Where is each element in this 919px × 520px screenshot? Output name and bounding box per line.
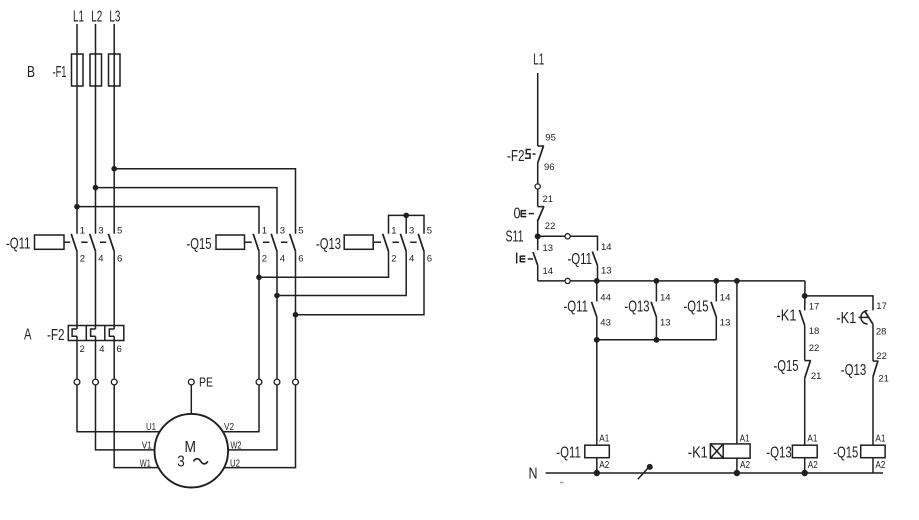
svg-text:17: 17 <box>809 301 820 312</box>
wire star-point bridge over Q13 <box>389 215 425 233</box>
stray mark <box>560 482 564 484</box>
svg-text:I: I <box>515 250 519 267</box>
svg-text:-F2: -F2 <box>507 148 525 165</box>
svg-text:17: 17 <box>876 301 887 312</box>
motor M 3~ <box>140 414 242 488</box>
junction Q15/Q13 output U2 <box>293 312 299 318</box>
wire feed L1 to Q15 pole 1 <box>77 207 259 234</box>
svg-text:A2: A2 <box>599 460 609 471</box>
wire feed L3 to Q15 pole 5 <box>114 169 295 234</box>
junction star-point bridge centre <box>403 213 409 219</box>
wire phase L3 vertical <box>113 24 115 234</box>
svg-text:4: 4 <box>98 254 103 265</box>
contact -Q15 aux NO (13-14) <box>684 281 731 340</box>
svg-text:L1: L1 <box>533 52 544 69</box>
svg-text:4: 4 <box>99 344 104 355</box>
contact -K1 timed NC delayed (17-28) <box>836 301 887 361</box>
svg-text:2: 2 <box>80 344 85 355</box>
svg-text:-Q13: -Q13 <box>625 299 650 316</box>
junction top bus / K1 coil rung <box>734 278 740 284</box>
label B (ladder row marker) <box>27 64 35 81</box>
coil -Q11 contactor coil A1-A2 <box>556 434 609 473</box>
svg-text:-Q11: -Q11 <box>568 251 593 268</box>
svg-text:3: 3 <box>409 225 414 236</box>
contactor -Q11 main contacts (line contactor) <box>6 225 122 264</box>
svg-text:1: 1 <box>391 225 396 236</box>
junction N / K1 coil <box>734 470 740 476</box>
svg-text:-Q11: -Q11 <box>556 444 581 461</box>
svg-text:W1: W1 <box>140 459 151 470</box>
svg-text:5: 5 <box>427 225 432 236</box>
wire Q11 outputs down through overload to motor terminals <box>77 251 159 467</box>
wire start button to top bus <box>537 265 539 281</box>
svg-text:M: M <box>185 439 197 456</box>
coil -Q13 star contactor coil A1-A2 <box>766 434 818 473</box>
svg-text:44: 44 <box>600 292 611 303</box>
svg-text:6: 6 <box>117 344 122 355</box>
svg-text:-Q11: -Q11 <box>564 299 589 316</box>
wire stop to S11 node <box>537 222 539 251</box>
connection marker on N rail <box>638 464 653 479</box>
net label L1 power feed <box>73 9 84 26</box>
junction L3 to Q15 feed <box>111 166 117 172</box>
svg-text:A2: A2 <box>808 460 818 471</box>
svg-text:18: 18 <box>809 326 820 337</box>
wire control main from L1 to F2 contact <box>537 73 539 146</box>
svg-text:-Q15: -Q15 <box>833 444 858 461</box>
wire Q13 output pole6 to node U2 <box>296 251 425 314</box>
svg-text:A1: A1 <box>807 434 817 445</box>
svg-text:43: 43 <box>600 317 611 328</box>
terminal circle on top bus <box>565 278 570 283</box>
coil -Q15 delta contactor coil A1-A2 <box>833 434 885 473</box>
svg-text:21: 21 <box>878 374 889 385</box>
wire Q13 output pole2 to node V2 <box>259 251 389 277</box>
svg-text:6: 6 <box>298 254 303 265</box>
svg-text:21: 21 <box>543 194 554 205</box>
terminal PE with label <box>188 376 213 390</box>
svg-text:4: 4 <box>409 254 414 265</box>
svg-text:14: 14 <box>543 266 554 277</box>
fuse -F1 pole 3 <box>109 54 121 86</box>
wire PE to motor <box>190 385 192 414</box>
wire terminal to stop button <box>537 189 539 207</box>
svg-text:PE: PE <box>199 376 213 390</box>
fuse -F1 pole 2 <box>90 54 102 86</box>
net label N <box>529 465 538 482</box>
svg-text:3: 3 <box>98 225 103 236</box>
svg-text:L1: L1 <box>73 9 84 26</box>
wire N bus rail <box>546 472 884 474</box>
svg-text:B: B <box>27 64 35 81</box>
wire Q11 aux to top bus <box>597 266 599 281</box>
svg-text:4: 4 <box>280 254 285 265</box>
junction sub-bus / Q11 coil rung <box>594 337 600 343</box>
svg-text:2: 2 <box>80 254 85 265</box>
svg-text:22: 22 <box>809 343 820 354</box>
junction sub-bus / Q13 aux <box>654 337 660 343</box>
contact -Q13 aux NC (21-22) interlock <box>841 351 889 445</box>
terminal circles motor connection strip <box>74 379 298 385</box>
wire sub-bus under aux contacts <box>597 339 717 341</box>
svg-text:-K1: -K1 <box>688 444 708 461</box>
svg-text:5: 5 <box>298 225 303 236</box>
junction N / Q13 coil <box>802 470 808 476</box>
wire Q13 output pole4 to node W2 <box>277 251 406 295</box>
pushbutton S11 stop 0 NC (21-22) <box>514 194 556 232</box>
junction branch to timed rung <box>802 293 808 299</box>
junction L2 to Q15 feed <box>93 185 99 191</box>
svg-text:-F1: -F1 <box>53 64 67 81</box>
contact -Q15 aux NC (21-22) interlock <box>774 343 822 445</box>
svg-text:22: 22 <box>545 221 556 232</box>
contact -F2 thermal NC (95-96) <box>507 133 556 174</box>
junction node S11 <box>535 233 541 239</box>
svg-text:A1: A1 <box>875 434 885 445</box>
svg-text:95: 95 <box>545 133 556 144</box>
svg-text:A2: A2 <box>875 460 885 471</box>
wire K1 coil rung down <box>736 281 738 444</box>
svg-text:-Q15: -Q15 <box>774 358 799 375</box>
coil -K1 timing relay A1-A2 <box>688 434 751 473</box>
label S11 <box>506 229 524 246</box>
svg-text:1: 1 <box>80 225 85 236</box>
svg-text:6: 6 <box>117 254 122 265</box>
svg-text:A1: A1 <box>740 434 750 445</box>
wire branch to timed rung <box>805 296 873 311</box>
label -F1 <box>53 64 67 81</box>
wire phase L1 vertical from terminal to contactor Q11 pole 1 <box>76 24 78 234</box>
svg-text:S11: S11 <box>506 229 524 246</box>
svg-text:13: 13 <box>543 243 554 254</box>
svg-text:3: 3 <box>177 454 185 471</box>
terminal circle branch <box>565 234 570 239</box>
junction Q15/Q13 output W2 <box>274 293 280 299</box>
svg-text:6: 6 <box>427 254 432 265</box>
wire top bus corner down to K1 contact rung <box>804 281 806 311</box>
svg-text:13: 13 <box>720 317 731 328</box>
contact -Q11 aux NO (13-14) seal-in <box>568 242 612 276</box>
svg-text:2: 2 <box>391 254 396 265</box>
contact -Q11 aux NO (43-44) <box>564 281 611 340</box>
svg-text:-Q13: -Q13 <box>841 362 867 379</box>
svg-text:N: N <box>529 465 538 482</box>
net label L1 control <box>533 52 544 69</box>
svg-text:V2: V2 <box>224 422 234 433</box>
svg-text:W2: W2 <box>231 440 242 451</box>
junction Q15/Q13 output V2 <box>256 275 262 281</box>
svg-text:28: 28 <box>876 326 887 337</box>
svg-text:14: 14 <box>720 292 731 303</box>
svg-text:1: 1 <box>262 225 267 236</box>
svg-text:A2: A2 <box>740 460 750 471</box>
fuse -F1 pole 1 <box>72 54 84 86</box>
contactor -Q15 main contacts (delta contactor) <box>187 225 304 264</box>
net label L2 power feed <box>91 9 102 26</box>
svg-text:13: 13 <box>660 317 671 328</box>
svg-text:U1: U1 <box>146 422 156 433</box>
svg-text:L2: L2 <box>91 9 102 26</box>
wire feed L2 to Q15 pole 3 <box>96 188 278 234</box>
junction top bus / Q15 aux rung <box>713 278 719 284</box>
contact -K1 NO (17-18) <box>777 301 820 360</box>
thermal overload relay -F2 <box>24 326 124 356</box>
svg-text:-F2: -F2 <box>47 327 65 344</box>
svg-text:0: 0 <box>514 205 521 222</box>
contactor -Q13 main contacts (star contactor) <box>316 225 432 264</box>
svg-text:3: 3 <box>280 225 285 236</box>
svg-text:-Q13: -Q13 <box>766 444 792 461</box>
svg-text:-Q15: -Q15 <box>684 299 709 316</box>
junction top bus / Q13 aux rung <box>654 278 660 284</box>
contact -Q13 aux NO (13-14) <box>625 281 671 340</box>
wire F2 to terminal circle <box>537 163 539 184</box>
svg-text:13: 13 <box>601 265 612 276</box>
svg-text:U2: U2 <box>230 459 240 470</box>
svg-text:14: 14 <box>660 292 671 303</box>
junction N / Q11 coil <box>594 470 600 476</box>
svg-text:2: 2 <box>262 254 267 265</box>
svg-text:5: 5 <box>117 225 122 236</box>
svg-text:V1: V1 <box>142 440 152 451</box>
wire top bus rail <box>538 280 805 282</box>
svg-text:21: 21 <box>811 371 822 382</box>
svg-text:-Q13: -Q13 <box>316 236 341 253</box>
svg-text:L3: L3 <box>109 9 120 26</box>
svg-text:-Q15: -Q15 <box>187 236 212 253</box>
wire parallel branch from S11 to Q11 aux <box>538 236 598 251</box>
svg-text:96: 96 <box>544 162 555 173</box>
wire phase L2 vertical <box>95 24 97 234</box>
svg-text:14: 14 <box>601 242 612 253</box>
wire Q11 coil rung down <box>596 340 598 445</box>
svg-text:A: A <box>24 327 32 344</box>
svg-text:-K1: -K1 <box>777 308 797 325</box>
wire Q15 outputs down to motor (right side) <box>223 251 295 467</box>
pushbutton S11 start I NO (13-14) <box>515 243 554 277</box>
svg-text:-K1: -K1 <box>836 310 856 327</box>
terminal circle control <box>535 184 540 189</box>
svg-text:22: 22 <box>876 351 887 362</box>
junction L1 to Q15 feed <box>74 204 80 210</box>
junction top bus / Q11 coil rung <box>594 278 600 284</box>
svg-text:A1: A1 <box>599 434 609 445</box>
net label L3 power feed <box>109 9 120 26</box>
svg-text:-Q11: -Q11 <box>6 235 31 252</box>
